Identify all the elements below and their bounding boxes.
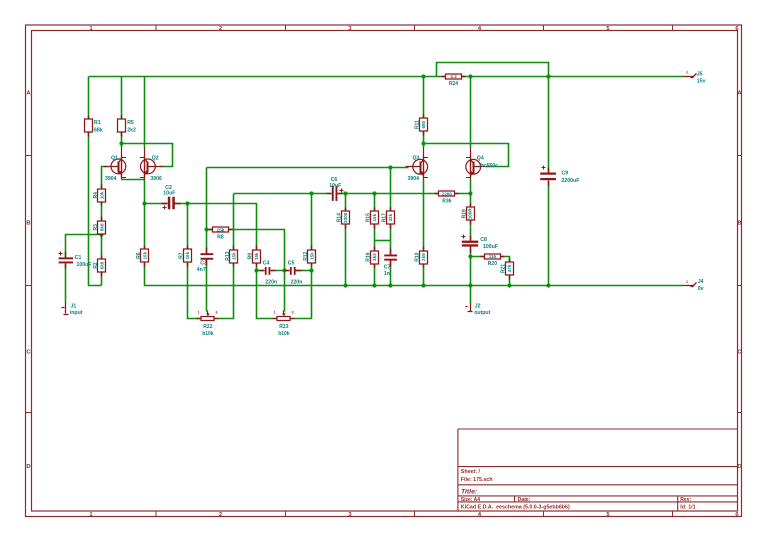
svg-text:R9: R9 — [248, 253, 254, 260]
svg-text:1: 1 — [274, 311, 276, 315]
svg-text:B: B — [26, 221, 30, 227]
svg-text:C1: C1 — [75, 255, 82, 261]
svg-text:100R: 100R — [468, 208, 473, 220]
svg-text:R12: R12 — [303, 251, 309, 260]
svg-text:J2: J2 — [475, 304, 481, 310]
svg-text:R2: R2 — [93, 262, 99, 269]
svg-text:C5: C5 — [288, 261, 295, 267]
svg-text:R19: R19 — [461, 209, 467, 218]
svg-text:J4: J4 — [698, 279, 704, 285]
svg-text:Id: 1/1: Id: 1/1 — [680, 504, 695, 510]
svg-text:R4: R4 — [93, 192, 99, 199]
svg-text:3904: 3904 — [408, 176, 420, 182]
svg-text:10uF: 10uF — [329, 183, 341, 189]
svg-text:3k3: 3k3 — [372, 253, 377, 261]
svg-text:bc550c: bc550c — [480, 163, 498, 169]
svg-text:R24: R24 — [449, 81, 458, 87]
svg-text:10uF: 10uF — [163, 191, 175, 197]
svg-text:1: 1 — [686, 71, 688, 75]
svg-text:D: D — [737, 464, 741, 470]
svg-text:15k: 15k — [231, 252, 236, 260]
svg-text:100uF: 100uF — [483, 244, 498, 250]
svg-text:Q2: Q2 — [152, 155, 159, 161]
svg-text:R10: R10 — [415, 252, 421, 261]
svg-text:KiCad E.D.A. eeschema (5.0.0-: KiCad E.D.A. eeschema (5.0.0-3-g5ebb6b6) — [461, 504, 570, 510]
svg-text:115: 115 — [489, 254, 497, 259]
svg-text:output: output — [474, 310, 490, 316]
svg-text:10k: 10k — [100, 191, 105, 199]
svg-text:47k: 47k — [507, 264, 512, 272]
svg-text:R8: R8 — [217, 234, 224, 240]
svg-text:input: input — [70, 310, 83, 316]
svg-text:R7: R7 — [179, 252, 185, 259]
svg-text:D: D — [26, 464, 30, 470]
svg-text:0v: 0v — [698, 286, 704, 292]
svg-text:15v: 15v — [697, 78, 706, 84]
svg-text:15k: 15k — [254, 252, 259, 260]
svg-text:3: 3 — [216, 311, 218, 315]
svg-text:Title:: Title: — [461, 489, 477, 496]
svg-text:R22: R22 — [203, 324, 212, 330]
svg-text:Size: A4: Size: A4 — [461, 497, 480, 503]
svg-text:2: 2 — [219, 512, 222, 518]
svg-text:2200uF: 2200uF — [562, 178, 580, 184]
svg-text:3k9: 3k9 — [421, 253, 426, 261]
svg-text:R16: R16 — [365, 252, 371, 261]
svg-text:R3: R3 — [93, 224, 99, 231]
svg-text:R1: R1 — [94, 120, 101, 126]
svg-text:15k: 15k — [142, 251, 147, 259]
svg-text:1: 1 — [198, 311, 200, 315]
svg-text:R14: R14 — [337, 213, 343, 222]
svg-text:File: 175.sch: File: 175.sch — [461, 477, 493, 483]
svg-text:8k8: 8k8 — [100, 223, 105, 231]
svg-text:680: 680 — [421, 120, 426, 128]
svg-text:C6: C6 — [331, 177, 338, 183]
svg-text:R21: R21 — [501, 264, 507, 273]
svg-text:15k: 15k — [217, 227, 225, 232]
svg-text:C4: C4 — [263, 261, 270, 267]
svg-text:Sheet: /: Sheet: / — [461, 469, 481, 475]
svg-text:R5: R5 — [127, 120, 134, 126]
svg-text:33k: 33k — [388, 213, 393, 221]
svg-text:R11: R11 — [415, 120, 421, 129]
svg-text:B: B — [737, 221, 741, 227]
svg-text:Date:: Date: — [518, 497, 531, 503]
svg-text:R13: R13 — [225, 251, 231, 260]
svg-text:C9: C9 — [562, 170, 569, 176]
svg-text:2: 2 — [219, 26, 222, 32]
svg-text:3906: 3906 — [150, 176, 162, 182]
svg-text:1n: 1n — [384, 271, 390, 277]
svg-text:220n: 220n — [265, 280, 277, 286]
svg-text:b10k: b10k — [278, 331, 290, 337]
svg-text:68k: 68k — [94, 127, 103, 133]
svg-text:J1: J1 — [71, 303, 77, 309]
svg-text:Q3: Q3 — [413, 156, 420, 162]
svg-text:b10k: b10k — [202, 331, 214, 337]
svg-text:2.2: 2.2 — [450, 74, 457, 79]
svg-text:15k: 15k — [372, 213, 377, 221]
svg-text:3300: 3300 — [343, 212, 348, 223]
svg-text:Q4: Q4 — [477, 155, 484, 161]
svg-text:4n7: 4n7 — [197, 267, 206, 273]
svg-text:C7: C7 — [384, 264, 391, 270]
svg-text:3: 3 — [292, 311, 294, 315]
svg-text:Q1: Q1 — [111, 155, 118, 161]
svg-text:3904: 3904 — [105, 176, 117, 182]
svg-text:R6: R6 — [136, 252, 142, 259]
svg-text:2k2: 2k2 — [127, 127, 136, 133]
svg-text:220n: 220n — [291, 280, 303, 286]
svg-text:R15: R15 — [365, 213, 371, 222]
svg-text:C8: C8 — [480, 237, 487, 243]
svg-text:100uF: 100uF — [77, 262, 92, 268]
svg-text:Rev:: Rev: — [680, 497, 691, 503]
svg-text:R20: R20 — [488, 261, 497, 267]
svg-text:2200: 2200 — [442, 191, 453, 196]
svg-text:R36: R36 — [442, 198, 451, 204]
svg-text:15k: 15k — [185, 251, 190, 259]
svg-text:1: 1 — [686, 280, 688, 284]
svg-text:R23: R23 — [279, 324, 288, 330]
svg-text:J5: J5 — [697, 71, 703, 77]
svg-text:6k8: 6k8 — [100, 261, 105, 269]
svg-text:15k: 15k — [310, 252, 315, 260]
svg-text:R17: R17 — [381, 213, 387, 222]
